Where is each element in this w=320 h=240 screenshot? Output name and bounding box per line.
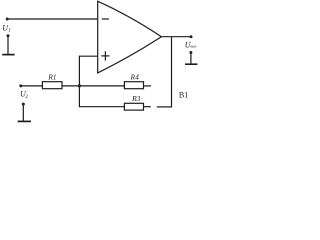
svg-text:B1: B1 [179,91,188,100]
svg-text:R1: R1 [47,72,56,81]
svg-text:R3: R3 [131,94,141,103]
svg-text:1: 1 [8,28,11,34]
svg-text:R4: R4 [130,72,140,81]
svg-text:2: 2 [25,94,28,100]
svg-text:вых: вых [190,45,196,49]
